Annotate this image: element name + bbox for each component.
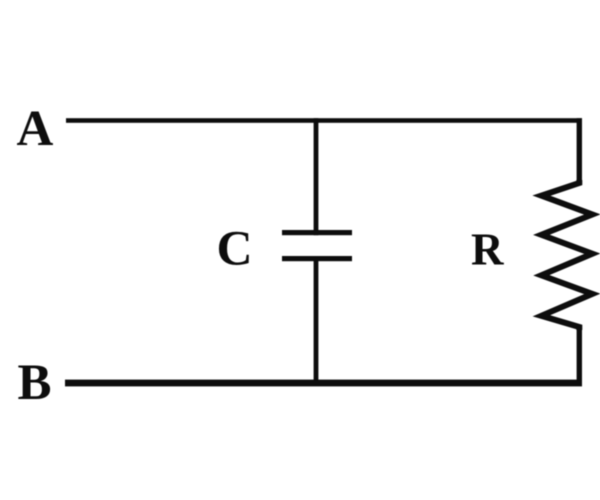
svg-text:C: C	[217, 220, 253, 276]
svg-text:A: A	[17, 101, 54, 157]
svg-text:R: R	[471, 225, 504, 275]
svg-text:B: B	[18, 355, 52, 411]
